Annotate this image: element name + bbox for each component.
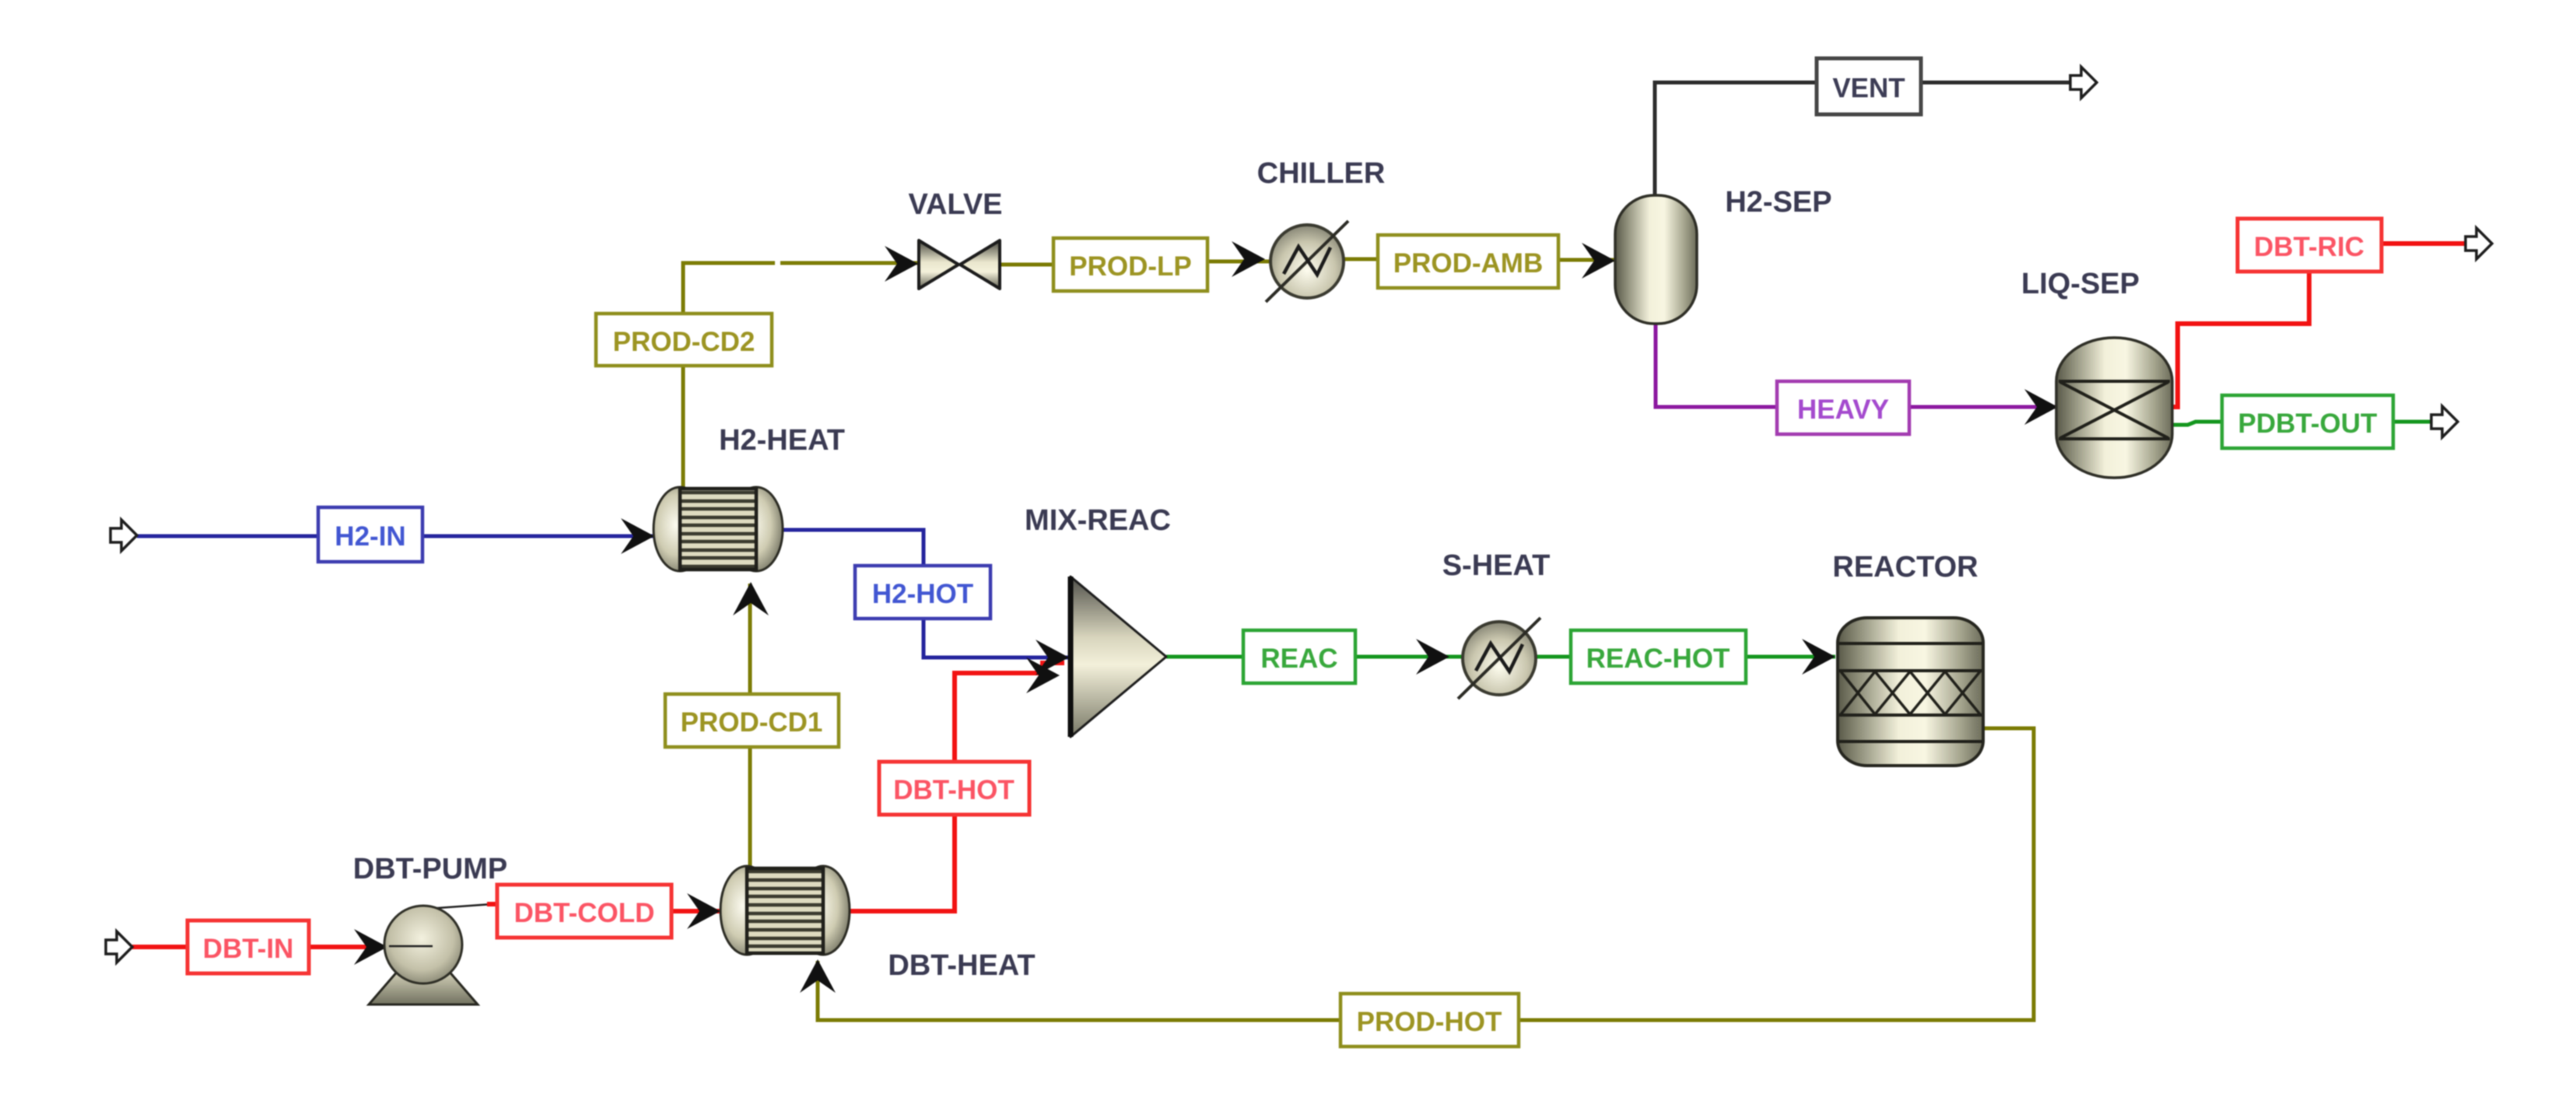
- wire H2-HOT (blue from H2-HEAT to MIX-REAC via elbow): [783, 530, 1069, 657]
- vessel LIQ-SEP: [2056, 338, 2172, 478]
- stream label box PROD-LP: [1053, 238, 1207, 291]
- svg-text:S-HEAT: S-HEAT: [1442, 549, 1551, 582]
- arrowhead into DBT-HEAT (DBT-COLD): [687, 893, 720, 929]
- stream label box DBT-HOT: [879, 762, 1029, 815]
- arrowhead into H2-HEAT (H2-IN): [621, 518, 654, 554]
- svg-text:H2-HEAT: H2-HEAT: [719, 424, 845, 457]
- wire DBT-COLD (red pump to DBT-HEAT): [487, 904, 720, 911]
- svg-text:LIQ-SEP: LIQ-SEP: [2021, 268, 2140, 300]
- arrowhead into REACTOR: [1802, 639, 1835, 675]
- svg-text:REACTOR: REACTOR: [1832, 551, 1978, 584]
- svg-text:PROD-HOT: PROD-HOT: [1357, 1007, 1502, 1037]
- wire PROD-HOT (olive from REACTOR right, down, left, up into DBT-HEAT bottom): [818, 728, 2034, 1020]
- mixer MIX-REAC: [1071, 577, 1166, 737]
- arrowhead into H2-SEP: [1582, 243, 1615, 279]
- stream label box DBT-COLD: [497, 885, 671, 938]
- wire DBT-RIC (red from LIQ-SEP up to DBT-RIC box and out): [2168, 244, 2466, 407]
- svg-text:VENT: VENT: [1832, 73, 1905, 103]
- feed arrow glyph H2-IN: [110, 520, 137, 551]
- product arrow glyph DBT-RIC: [2466, 228, 2492, 259]
- wire pump outlet connector (thin black): [389, 904, 492, 946]
- wire PROD-CD2 (olive from H2-HEAT top up and right to VALVE): [683, 263, 918, 489]
- stream label box DBT-RIC: [2238, 219, 2381, 272]
- heat exchanger H2-HEAT: [654, 487, 783, 571]
- svg-text:REAC: REAC: [1260, 643, 1337, 674]
- svg-text:DBT-HOT: DBT-HOT: [893, 775, 1015, 805]
- stream label box PROD-HOT: [1341, 994, 1519, 1047]
- stream label box PDBT-OUT: [2222, 395, 2393, 448]
- vessel H2-SEP: [1615, 195, 1697, 324]
- pump DBT-PUMP: [369, 906, 478, 1005]
- wire PROD-AMB (olive chiller to H2-SEP): [1341, 259, 1615, 260]
- wire REAC-HOT (green from S-HEAT to REACTOR): [1535, 655, 1835, 659]
- stream label box REAC: [1243, 630, 1355, 683]
- wire REAC (green from MIX-REAC to S-HEAT): [1166, 655, 1463, 659]
- svg-text:MIX-REAC: MIX-REAC: [1025, 504, 1171, 537]
- heat exchanger DBT-HEAT: [720, 866, 850, 955]
- svg-text:PROD-CD1: PROD-CD1: [681, 707, 823, 738]
- stream label box REAC-HOT: [1571, 630, 1746, 683]
- svg-text:DBT-PUMP: DBT-PUMP: [353, 853, 507, 885]
- stream label box DBT-IN: [188, 920, 309, 973]
- wire DBT-IN (red feed to pump): [132, 945, 386, 949]
- arrowhead blue into MIX-REAC: [1036, 640, 1069, 675]
- arrowhead red into MIX-REAC: [1026, 657, 1060, 693]
- wire PDBT-OUT (green from LIQ-SEP right): [2168, 422, 2431, 425]
- arrowhead into S-HEAT: [1416, 639, 1449, 675]
- heater S-HEAT: [1458, 618, 1540, 699]
- arrowhead into VALVE: [885, 246, 918, 282]
- svg-text:VALVE: VALVE: [908, 188, 1002, 221]
- wire VENT (black from H2-SEP top): [1655, 82, 2070, 195]
- wire gap marker on PROD-CD2 horizontal: [775, 257, 780, 269]
- stream label box H2-HOT: [855, 566, 990, 619]
- svg-text:DBT-RIC: DBT-RIC: [2254, 232, 2364, 262]
- svg-text:REAC-HOT: REAC-HOT: [1586, 643, 1730, 674]
- product arrow glyph VENT: [2070, 67, 2097, 98]
- svg-text:HEAVY: HEAVY: [1797, 394, 1889, 425]
- arrowhead into LIQ-SEP (HEAVY): [2024, 389, 2058, 425]
- svg-text:PDBT-OUT: PDBT-OUT: [2238, 408, 2378, 439]
- svg-text:PROD-LP: PROD-LP: [1069, 251, 1192, 282]
- stream label box PROD-CD2: [596, 314, 772, 366]
- svg-text:PROD-CD2: PROD-CD2: [613, 327, 755, 357]
- stream label box PROD-AMB: [1378, 235, 1558, 288]
- svg-text:CHILLER: CHILLER: [1257, 157, 1386, 190]
- svg-text:DBT-IN: DBT-IN: [203, 934, 294, 964]
- stream label box H2-IN: [318, 507, 422, 562]
- wire DBT-HOT (red from DBT-HEAT right up to MIX-REAC): [850, 663, 1064, 911]
- valve VALVE: [919, 240, 1000, 289]
- svg-text:H2-HOT: H2-HOT: [872, 579, 973, 609]
- wire H2-IN (blue feed line): [137, 535, 654, 538]
- product arrow glyph PDBT-OUT: [2431, 406, 2458, 437]
- stream label box PROD-CD1: [665, 694, 839, 747]
- svg-text:DBT-COLD: DBT-COLD: [514, 898, 655, 928]
- stream label box HEAVY: [1777, 381, 1909, 434]
- svg-text:H2-IN: H2-IN: [335, 521, 405, 552]
- arrowhead into CHILLER: [1232, 241, 1265, 277]
- svg-text:H2-SEP: H2-SEP: [1725, 186, 1831, 219]
- wire PROD-LP (olive valve to chiller): [1001, 261, 1273, 265]
- svg-text:PROD-AMB: PROD-AMB: [1393, 248, 1543, 279]
- wire HEAVY (purple from H2-SEP bottom to LIQ-SEP): [1656, 324, 2058, 407]
- reactor REACTOR: [1838, 618, 1983, 766]
- wire PROD-CD1 (olive from DBT-HEAT top up into H2-HEAT bottom): [748, 584, 752, 867]
- feed arrow glyph DBT-IN: [106, 931, 132, 963]
- arrowhead up into H2-HEAT bottom (PROD-CD1): [733, 582, 769, 615]
- heater CHILLER: [1266, 221, 1348, 302]
- arrowhead into DBT-PUMP (DBT-IN): [354, 929, 387, 965]
- svg-text:DBT-HEAT: DBT-HEAT: [888, 949, 1035, 982]
- stream label box VENT: [1817, 58, 1921, 114]
- arrowhead up into DBT-HEAT bottom (PROD-HOT): [800, 959, 836, 993]
